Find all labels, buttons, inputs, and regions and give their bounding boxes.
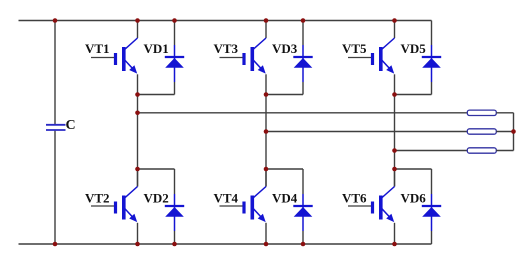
wire: leg midpoint vertical at x=137.5: [137, 95, 139, 187]
svg-text:VT2: VT2: [85, 191, 110, 206]
wire: connector VD1 to leg: [138, 94, 175, 96]
node: lower midpoint junction x=394.5: [392, 167, 397, 172]
node: phase A tap: [135, 111, 140, 116]
svg-text:VD3: VD3: [272, 41, 298, 56]
wire: phase A output line: [138, 112, 468, 114]
wire: phase B output line: [266, 131, 467, 133]
wire: negative DC bottom rail: [19, 243, 432, 245]
wire: connector VD5 to leg: [395, 94, 432, 96]
svg-text:VD6: VD6: [401, 191, 427, 206]
wire: connector VD2 to leg: [138, 168, 175, 170]
wire: connector VD4 to leg: [266, 168, 303, 170]
svg-text:VT4: VT4: [214, 191, 239, 206]
diode VD6: [422, 169, 441, 244]
node: bottom rail junction x=55: [53, 242, 58, 247]
node: bottom rail junction x=174.5: [172, 242, 177, 247]
node: lower midpoint junction x=137.5: [135, 167, 140, 172]
resistor load R3: [467, 148, 496, 153]
diode VD1: [165, 21, 184, 95]
wire: connector VD3 to leg: [266, 94, 303, 96]
transistor VT2: [91, 169, 138, 244]
capacitor C: [46, 125, 66, 130]
svg-text:VT6: VT6: [342, 191, 367, 206]
node: bottom rail junction x=137.5: [135, 242, 140, 247]
node: load star point: [511, 129, 516, 134]
diode VD4: [293, 169, 312, 244]
node: top rail junction x=174.5: [172, 18, 177, 23]
transistor VT3: [220, 21, 267, 95]
node: upper midpoint junction x=266.0: [264, 92, 269, 97]
svg-text:VT3: VT3: [214, 41, 239, 56]
transistor VT5: [348, 21, 395, 95]
wire: R2 right stub: [496, 131, 513, 133]
node: top rail junction x=266: [264, 18, 269, 23]
node: lower midpoint junction x=266.0: [264, 167, 269, 172]
wire: R3 right stub: [496, 150, 513, 152]
transistor VT4: [220, 169, 267, 244]
wire: leg midpoint vertical at x=394.5: [394, 95, 396, 187]
diode VD2: [165, 169, 184, 244]
wire: capacitor branch upper segment: [54, 21, 56, 125]
node: bottom rail junction x=303: [301, 242, 306, 247]
node: phase B tap: [264, 129, 269, 134]
resistor load R1: [467, 110, 496, 115]
wire: phase C output line: [395, 150, 468, 152]
node: top rail junction x=137.5: [135, 18, 140, 23]
node: bottom rail junction x=266: [264, 242, 269, 247]
node: bottom rail junction x=394.5: [392, 242, 397, 247]
svg-text:C: C: [66, 118, 76, 133]
diode VD3: [293, 21, 312, 95]
node: top rail junction x=303: [301, 18, 306, 23]
diode VD5: [422, 21, 441, 95]
svg-text:VD4: VD4: [272, 191, 298, 206]
wire: connector VD6 to leg: [395, 168, 432, 170]
svg-text:VD2: VD2: [144, 191, 169, 206]
wire: load star-point vertical: [513, 113, 515, 151]
transistor VT1: [91, 21, 138, 95]
resistor load R2: [467, 129, 496, 134]
node: upper midpoint junction x=137.5: [135, 92, 140, 97]
svg-text:VD5: VD5: [401, 41, 427, 56]
node: upper midpoint junction x=394.5: [392, 92, 397, 97]
svg-text:VT1: VT1: [85, 41, 110, 56]
wire: R1 right stub: [496, 112, 513, 114]
svg-text:VT5: VT5: [342, 41, 367, 56]
transistor VT6: [348, 169, 395, 244]
node: top rail junction x=394.5: [392, 18, 397, 23]
node: top rail junction x=55: [53, 18, 58, 23]
wire: positive DC top rail: [19, 20, 432, 22]
node: phase C tap: [392, 148, 397, 153]
svg-text:VD1: VD1: [144, 41, 169, 56]
wire: capacitor branch lower segment: [54, 131, 56, 244]
wire: leg midpoint vertical at x=266.0: [265, 95, 267, 187]
